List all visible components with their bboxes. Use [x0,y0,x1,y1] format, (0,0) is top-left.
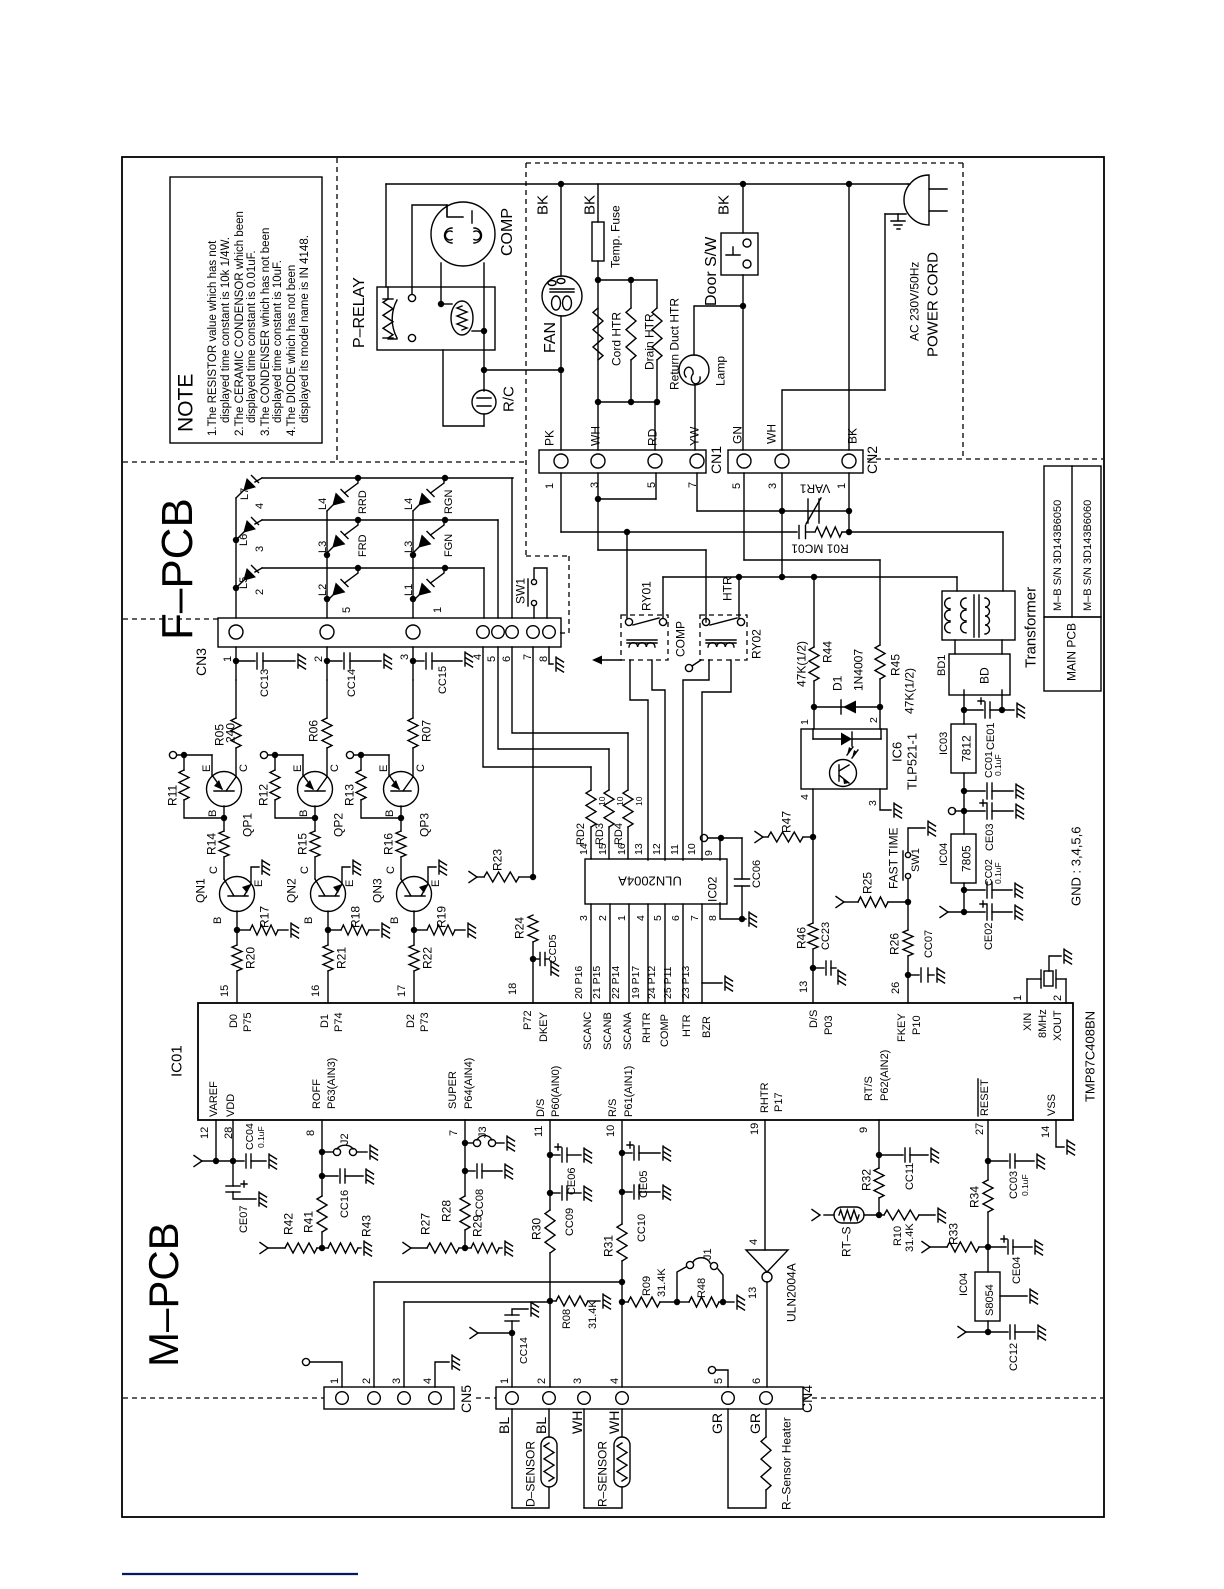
svg-text:B: B [303,917,315,924]
supervisor IC04 S8054 [975,1272,1000,1321]
svg-text:CC23: CC23 [820,922,832,950]
wire base QP3 [400,806,402,831]
svg-text:TLP521-1: TLP521-1 [905,733,920,790]
svg-text:R47: R47 [779,811,793,833]
junction heater top [595,277,601,283]
wire fuse to heaters [597,261,599,450]
svg-text:13: 13 [798,981,810,993]
wire LED row 2 [262,567,484,569]
junction CCD5 [530,956,536,962]
sensor D-SENSOR [511,1409,513,1508]
resistor R27 [403,1243,411,1254]
svg-text:BK: BK [534,195,551,215]
svg-text:R/C: R/C [500,386,517,412]
junction base QP2 [312,815,318,821]
svg-text:CC16: CC16 [339,1190,351,1218]
wire line D [663,576,957,578]
svg-text:RT–S: RT–S [839,1227,853,1257]
wire line D to transformer [956,577,958,591]
svg-text:B: B [212,917,224,924]
junction CE01 b [999,707,1005,713]
junction rail QP1 [181,752,187,758]
junction CN3-3 cap [410,658,416,664]
wire CN3-8 ground [549,647,553,664]
resistor R41 [317,1196,327,1232]
junction J2 [319,1149,325,1155]
wire D/S to CN4-2 [549,1253,551,1387]
svg-text:26: 26 [890,982,902,994]
svg-text:PK: PK [542,430,556,446]
svg-text:47K(1/2): 47K(1/2) [902,668,916,714]
wire RESET pin27 [987,1120,989,1180]
junction row2 L1 [442,565,448,571]
svg-text:2.The CERAMIC CONDENSOR which: 2.The CERAMIC CONDENSOR which been [234,211,246,436]
wire LED row 3 [262,519,498,521]
wire AC bus BK [386,183,908,185]
node IC02 pin9 line [700,834,707,841]
svg-text:L4: L4 [317,498,329,510]
wire emitter QN1 to ground [251,867,259,884]
resistor R12 [274,755,276,770]
wire RC to FAN [484,369,561,371]
svg-text:P60(AIN0): P60(AIN0) [550,1066,562,1117]
svg-text:R44: R44 [820,641,834,663]
svg-text:RESET: RESET [979,1079,991,1116]
svg-text:P63(AIN3): P63(AIN3) [326,1058,338,1109]
relay RY02 [700,615,747,660]
sensor R-SENSOR [583,1409,585,1508]
svg-text:12: 12 [199,1127,211,1139]
junction CC12 [985,1329,991,1335]
svg-text:GND : 3,4,5,6: GND : 3,4,5,6 [1069,827,1084,906]
wire LED column 2 [326,511,328,618]
svg-text:19: 19 [749,1123,761,1135]
capacitor CC11 [879,1154,903,1156]
svg-text:16: 16 [310,985,322,997]
svg-text:BD: BD [977,667,991,684]
svg-text:R48: R48 [696,1278,708,1298]
wire CN3-6 down [512,647,628,733]
resistor R31 [617,1224,627,1261]
svg-text:D–SENSOR: D–SENSOR [523,1441,537,1507]
led L7 [236,490,244,498]
resistor R08 31.4K [550,1300,556,1302]
svg-text:C: C [415,764,427,772]
junction CC23 [810,965,816,971]
svg-text:C: C [329,764,341,772]
wire RY02 coil b [702,660,731,860]
wire CN5-2 up [373,1282,375,1387]
wire row4 to CN3-6 [511,478,513,618]
resistor R15 [310,831,320,857]
svg-text:GR: GR [747,1413,763,1434]
wire IC02-4 to P17 [647,904,649,1003]
svg-text:9: 9 [703,850,715,856]
svg-text:E: E [253,880,265,887]
svg-text:3: 3 [399,654,411,660]
capacitor CC14 [511,1333,513,1387]
svg-text:Temp. Fuse: Temp. Fuse [608,205,622,268]
svg-text:F–PCB: F–PCB [153,498,202,640]
svg-text:R17: R17 [257,906,271,928]
svg-text:R01 MC01: R01 MC01 [791,542,849,556]
wire IC02-2 to P15 [609,904,611,1003]
svg-text:R09: R09 [641,1276,653,1296]
resistor R06 [322,718,332,748]
svg-text:CE03: CE03 [984,823,996,851]
svg-text:J2: J2 [339,1133,351,1145]
svg-text:1: 1 [799,719,811,725]
svg-text:M–B S/N 3D143B6060: M–B S/N 3D143B6060 [1082,500,1094,611]
junction R09 left [619,1299,625,1305]
svg-text:5: 5 [652,915,664,921]
capacitor CC04 0.1uF [245,1154,247,1168]
junction CN3-2 cap [324,658,330,664]
svg-text:L6: L6 [238,534,250,546]
svg-text:9: 9 [858,1127,870,1133]
capacitor CC07 [908,974,919,976]
svg-text:21 P15: 21 P15 [591,966,603,999]
svg-text:R33: R33 [946,1223,960,1245]
svg-text:CC15: CC15 [437,666,449,694]
connector CN4 [496,1387,803,1409]
dashed partition M-PCB row [123,1397,324,1399]
svg-text:R29: R29 [470,1215,484,1237]
svg-text:5: 5 [713,1378,725,1384]
svg-text:CC14: CC14 [346,669,358,697]
wire transformer to BD b [1001,640,1003,654]
border frame [122,157,1104,1517]
svg-text:P03: P03 [823,1015,835,1035]
svg-text:FAST TIME: FAST TIME [886,827,900,889]
svg-text:CCD5: CCD5 [547,934,559,963]
junction R08 [547,1298,553,1304]
junction COMP leg [438,301,444,307]
wire CN5-1 stub [310,1362,342,1387]
svg-text:P62(AIN2): P62(AIN2) [879,1050,891,1101]
svg-text:31.4K: 31.4K [587,1300,599,1329]
svg-text:XIN: XIN [1022,1013,1034,1031]
capacitor CC12 [958,1327,966,1338]
svg-text:13: 13 [747,1287,759,1299]
junction row4 L4b [442,475,448,481]
NOTE box [170,177,322,443]
dashed partition F-PCB top [123,461,526,463]
transistor QP1 [207,772,242,807]
junction RC node [481,367,487,373]
svg-text:L3: L3 [317,541,329,553]
resistor R46 [808,923,818,949]
led L4 col3 [413,505,419,511]
svg-text:R23: R23 [490,849,504,871]
svg-text:R31: R31 [601,1235,615,1257]
svg-text:P64(AIN4): P64(AIN4) [463,1058,475,1109]
svg-text:L5: L5 [238,577,250,589]
svg-text:CC07: CC07 [923,930,935,958]
svg-text:4: 4 [748,1239,760,1245]
wire SUPER pin7 [464,1120,466,1196]
svg-text:0.1uF: 0.1uF [1020,1174,1030,1196]
wire bus to fuse [597,184,599,222]
resistor R20 [232,945,242,971]
wire VSS pin14 [1056,1120,1064,1147]
svg-text:0.1uF: 0.1uF [993,754,1003,776]
wire R/S to CN4-4 [621,1261,623,1387]
junction CE06 [547,1152,553,1158]
svg-text:ROFF: ROFF [311,1079,323,1109]
svg-text:displayed time constant is 0.0: displayed time constant is 0.01uF. [246,250,258,423]
capacitor CCD5 [533,958,539,960]
wire CN3-4 down [483,647,591,767]
capacitor CC13 [235,647,237,680]
transformer [942,591,1015,640]
wire lamp top [694,306,743,355]
svg-text:18: 18 [507,983,519,995]
capacitor CC23 [813,967,824,969]
svg-text:CN2: CN2 [864,446,880,474]
junction R47 [810,834,816,840]
svg-text:MAIN PCB: MAIN PCB [1064,623,1078,681]
svg-text:8MHz: 8MHz [1037,1009,1049,1038]
dashed partition power bottom [867,458,1103,460]
junction base QN2 [325,927,331,933]
resistor R25 [836,897,844,908]
svg-text:VSS: VSS [1046,1094,1058,1116]
relay P-RELAY box [377,287,495,350]
svg-text:14: 14 [1040,1126,1052,1138]
junction CC06 gnd [739,916,745,922]
svg-text:WH: WH [764,424,778,444]
junction CC08 [462,1168,468,1174]
svg-text:1: 1 [432,607,444,613]
table M-B S/N [1044,466,1101,617]
svg-text:R30: R30 [529,1218,543,1240]
svg-text:D0: D0 [228,1014,240,1028]
capacitor CC16 [322,1175,338,1177]
jumper J3 [465,1142,473,1144]
wire SW1 fast gnd [908,828,925,852]
capacitor CE04 [988,1246,1006,1248]
svg-text:15: 15 [597,843,609,855]
svg-text:IC6: IC6 [890,742,905,762]
svg-text:4: 4 [254,503,266,509]
svg-text:5: 5 [486,656,498,662]
resistor R44 47K [813,577,815,647]
junction row3 L3b [442,517,448,523]
svg-text:1: 1 [544,483,556,489]
resistor R19 [414,929,427,931]
P-RELAY coil [383,298,393,300]
svg-text:19 P17: 19 P17 [630,966,642,999]
svg-text:2: 2 [536,1378,548,1384]
svg-text:E: E [378,765,390,772]
crystal 8MHz [1026,979,1028,1003]
svg-text:IC02: IC02 [705,876,719,902]
svg-text:2: 2 [254,589,266,595]
resistor Return Duct HTR [656,280,658,308]
svg-text:7: 7 [522,654,534,660]
junction RT-S [876,1212,882,1218]
svg-text:R22: R22 [420,947,434,969]
wire CN3-7 down [532,647,534,877]
resistor RD4 [627,733,629,790]
svg-text:Transformer: Transformer [1022,587,1039,668]
svg-text:R27: R27 [418,1213,432,1235]
junction pin9 [718,835,724,841]
svg-text:L1: L1 [403,584,415,596]
svg-text:11: 11 [669,844,681,855]
junction line B WH [779,508,785,514]
wire CN3 column QP3 [412,680,414,718]
svg-text:24 P12: 24 P12 [646,966,658,999]
svg-text:P17: P17 [773,1092,785,1112]
junction row4 L4 [355,475,361,481]
svg-text:BK: BK [845,428,859,444]
svg-text:R–Sensor Heater: R–Sensor Heater [779,1417,793,1510]
wire BD out b [1001,690,1003,710]
svg-text:R16: R16 [381,833,395,855]
svg-text:ULN2004A: ULN2004A [618,873,682,888]
svg-text:QN1: QN1 [193,878,207,903]
svg-text:3: 3 [254,546,266,552]
svg-text:SW1: SW1 [910,848,922,872]
svg-text:RD3: RD3 [594,823,606,845]
junction row3 L3 [355,517,361,523]
resistor R42 [260,1243,268,1254]
svg-text:P72: P72 [522,1010,534,1030]
svg-text:47K(1/2): 47K(1/2) [794,641,808,687]
svg-text:WH: WH [588,426,602,446]
svg-text:3: 3 [589,482,601,488]
junction CC09 [547,1190,553,1196]
wire RY02 coil a [683,660,709,860]
svg-text:QN3: QN3 [370,878,384,903]
svg-text:RY01: RY01 [639,581,653,611]
wire LED row 4 [262,477,513,479]
svg-text:FGN: FGN [443,534,455,557]
RY02 stub circle [685,664,692,671]
resistor R23 [469,872,477,883]
svg-text:0.1uF: 0.1uF [993,862,1003,884]
rail circle QP2 [260,751,267,758]
svg-text:L3: L3 [403,541,415,553]
resistor R24 [528,915,538,942]
wire COMP right leg [483,263,485,331]
svg-text:R42: R42 [281,1213,295,1235]
svg-text:4: 4 [472,654,484,660]
wire emitter QN2 to ground [342,867,350,884]
junction WH line A [595,496,601,502]
junction base QP1 [221,815,227,821]
resistor R18 [328,929,341,931]
resistor R14 [219,831,229,857]
P-RELAY contact points [408,294,415,301]
capacitor CC10 [622,1191,632,1193]
svg-text:14: 14 [578,843,590,855]
wire base QN3 [413,911,415,945]
svg-text:R45: R45 [888,654,902,676]
resistor R16 [396,831,406,857]
junction base QN1 [234,927,240,933]
svg-text:1N4007: 1N4007 [851,649,865,691]
svg-text:SCANC: SCANC [582,1011,594,1050]
thermistor RT-S [864,1214,879,1216]
svg-text:FAN: FAN [542,322,559,353]
junction col2 L2 [324,596,330,602]
svg-text:D2: D2 [405,1014,417,1028]
resistor R11 [183,755,185,770]
junction bus-CN2 [846,181,852,187]
junction row2 L2 [355,565,361,571]
svg-text:R34: R34 [967,1186,981,1208]
junction line1 RS [619,1279,625,1285]
svg-text:E: E [292,765,304,772]
optocoupler IC6 TLP521-1 [801,729,887,789]
wire RY01 common up [662,577,664,618]
svg-text:BK: BK [581,195,598,215]
svg-text:10: 10 [605,1125,617,1137]
wire LED column 1 [235,498,237,618]
svg-text:VAREF: VAREF [208,1081,220,1117]
dashed partition power right [962,163,964,459]
capacitor CC08 [465,1170,475,1172]
junction bus-FAN [558,181,564,187]
svg-text:IC04: IC04 [958,1273,970,1296]
svg-text:1: 1 [222,656,234,662]
junction FAN bottom [558,367,564,373]
junction line B BK [846,508,852,514]
svg-text:CC09: CC09 [564,1208,576,1236]
wire heaters to CN1-5 [654,402,656,450]
svg-text:IC04: IC04 [938,843,950,866]
svg-text:RRD: RRD [357,490,369,514]
junction VDD [230,1158,236,1164]
svg-text:23 P13: 23 P13 [680,966,692,999]
svg-text:SCANA: SCANA [622,1011,634,1050]
mcu IC01 TMP87C408BN [198,1003,1073,1120]
svg-text:E: E [201,765,213,772]
relay RY01 [621,615,668,660]
resistor R29 [465,1247,471,1249]
door switch Door S/W [742,184,744,233]
fuse Temp. Fuse [592,222,604,261]
svg-text:M–B S/N 3D143B6050: M–B S/N 3D143B6050 [1052,500,1064,611]
compressor COMP [431,202,495,266]
transistor QP2 [298,772,333,807]
svg-text:22 P14: 22 P14 [610,966,622,999]
wire base QP1 [223,806,225,831]
wire SW1 fast down [907,879,909,902]
wire gate to CN4-6 [766,1282,768,1387]
fan motor FAN [542,276,582,316]
wire IC02-5 to P12 [664,904,666,1003]
svg-text:R19: R19 [434,906,448,928]
svg-text:displayed time constant is 10u: displayed time constant is 10uF. [272,260,284,423]
wire CN4-5 stub [716,1370,728,1387]
wire IC02-3 to P16 [590,904,592,1003]
junction lamp node [740,303,746,309]
junction heater bottom [595,399,601,405]
wire CN2-3 WH down [781,473,783,577]
svg-text:P10: P10 [911,1015,923,1035]
svg-text:BZR: BZR [701,1016,713,1038]
svg-text:20 P16: 20 P16 [573,966,585,999]
capacitor CC01 0.1uF [964,790,985,792]
svg-text:CC06: CC06 [751,860,763,888]
transistor QN3 [397,877,432,912]
svg-text:ULN2004A: ULN2004A [784,1263,798,1322]
rail circle QP1 [169,751,176,758]
